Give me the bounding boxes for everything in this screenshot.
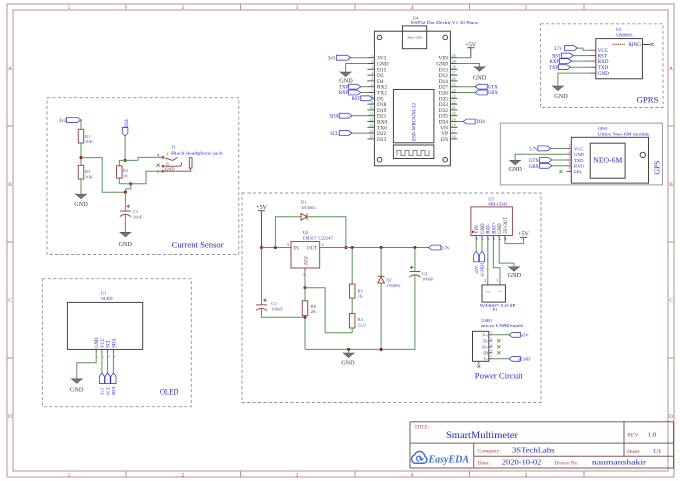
- svg-text:R8: R8: [311, 304, 317, 309]
- wire: [305, 288, 352, 333]
- net flag 3v3: [99, 373, 104, 384]
- svg-text:ADJ: ADJ: [304, 256, 309, 265]
- svg-text:4: 4: [411, 472, 414, 478]
- svg-text:V-: V-: [484, 357, 489, 362]
- section box GPS: [500, 123, 662, 185]
- svg-text:5: 5: [525, 472, 528, 478]
- svg-text:5: 5: [525, 5, 528, 11]
- section box GPRS: [541, 24, 664, 108]
- svg-text:GND: GND: [508, 272, 522, 279]
- net flag a5V: [509, 332, 521, 337]
- net flag GTX: [475, 84, 487, 89]
- svg-text:22.6: 22.6: [358, 323, 367, 328]
- wire: [261, 248, 263, 305]
- net flag SCL: [105, 373, 110, 384]
- svg-text:OUT: OUT: [307, 246, 317, 251]
- wire: [505, 237, 524, 243]
- svg-text:C3: C3: [271, 301, 277, 306]
- wire: [304, 271, 306, 288]
- svg-text:J1: J1: [172, 145, 176, 150]
- svg-text:4: 4: [490, 349, 492, 353]
- IC U4 ESP32 Dev Devkit V1 30 Pinos: [374, 31, 450, 166]
- node junction D1 left: [274, 246, 277, 249]
- resistor R2: [117, 166, 123, 178]
- svg-text:U2: U2: [303, 230, 309, 235]
- wire: [457, 121, 463, 123]
- svg-text:16: 16: [452, 135, 456, 139]
- svg-text:3STechLabs: 3STechLabs: [512, 447, 555, 454]
- EasyEDA logo: [412, 451, 427, 463]
- svg-text:1: 1: [68, 5, 71, 11]
- svg-text:GPRS: GPRS: [637, 95, 659, 104]
- svg-text:Sheet:: Sheet:: [627, 449, 641, 455]
- svg-text:SIM800L: SIM800L: [616, 32, 633, 37]
- svg-text:27: 27: [452, 71, 456, 75]
- wire: [124, 192, 126, 211]
- module U5 MH-CD42: [471, 207, 513, 236]
- svg-text:5: 5: [371, 77, 373, 81]
- svg-text:30: 30: [452, 54, 456, 58]
- svg-text:TXP: TXP: [339, 85, 348, 90]
- svg-text:1.0: 1.0: [648, 432, 657, 439]
- node junction ADJ: [303, 286, 306, 289]
- wire: [457, 64, 479, 68]
- node junction R5 tap: [351, 246, 354, 249]
- svg-text:1/1: 1/1: [653, 448, 661, 455]
- svg-text:OLED: OLED: [101, 296, 113, 301]
- svg-text:R1: R1: [85, 134, 91, 139]
- wire: [80, 143, 82, 165]
- svg-text:20: 20: [452, 112, 456, 116]
- svg-text:C1: C1: [133, 209, 139, 214]
- resistor R8: [302, 301, 308, 316]
- svg-text:RXD: RXD: [574, 164, 584, 169]
- svg-text:R3: R3: [85, 169, 91, 174]
- no-connect PPS: [559, 170, 562, 173]
- svg-text:A: A: [669, 66, 673, 72]
- svg-text:GPS: GPS: [653, 161, 662, 175]
- net flag aGND: [509, 356, 521, 361]
- svg-text:R2: R2: [123, 168, 129, 173]
- svg-text:3: 3: [492, 238, 496, 240]
- wire: [499, 241, 514, 267]
- svg-text:PPS: PPS: [574, 170, 582, 175]
- svg-text:12: 12: [369, 118, 373, 122]
- svg-text:GND: GND: [554, 93, 568, 100]
- svg-text:SCL: SCL: [107, 339, 112, 348]
- svg-text:1: 1: [499, 291, 503, 293]
- svg-text:micro USBFemale: micro USBFemale: [481, 323, 523, 328]
- wire: [481, 241, 483, 252]
- svg-text:D1: D1: [301, 199, 307, 204]
- svg-text:aGND1: aGND1: [480, 262, 485, 277]
- svg-text:RXP: RXP: [339, 91, 349, 96]
- ground: [344, 353, 354, 357]
- net flag 3.7v: [428, 245, 440, 250]
- svg-text:5: 5: [475, 238, 479, 240]
- svg-text:IN: IN: [294, 246, 300, 251]
- svg-text:3.7v: 3.7v: [554, 47, 563, 52]
- wire: [262, 308, 306, 317]
- svg-text:RST: RST: [351, 97, 360, 102]
- wire: [305, 275, 415, 349]
- svg-text:Power Circuit: Power Circuit: [475, 372, 524, 381]
- svg-text:ESP-WROOM-32: ESP-WROOM-32: [412, 103, 418, 141]
- wire: [107, 354, 109, 373]
- wire: [352, 132, 367, 134]
- svg-text:+5V: +5V: [256, 204, 268, 211]
- wire: [80, 120, 82, 129]
- svg-text:1: 1: [68, 472, 71, 478]
- wire: [487, 241, 489, 282]
- wire: [320, 247, 429, 249]
- svg-text:1N4002: 1N4002: [301, 205, 316, 210]
- svg-text:1: 1: [496, 279, 498, 283]
- svg-text:2: 2: [490, 337, 492, 341]
- no-connect ID: [497, 351, 500, 354]
- wire: [346, 64, 368, 73]
- svg-text:GND: GND: [473, 75, 487, 82]
- wire: [352, 115, 367, 117]
- wire: [493, 334, 509, 336]
- svg-text:1: 1: [371, 54, 373, 58]
- no-connect RING: [651, 43, 654, 46]
- wire: [77, 354, 96, 379]
- wire: [552, 159, 567, 161]
- svg-text:1': 1': [166, 151, 169, 156]
- wire: [558, 73, 590, 86]
- wire: [574, 55, 590, 57]
- svg-text:1N4002: 1N4002: [386, 283, 401, 288]
- svg-text:10K: 10K: [85, 139, 94, 144]
- wire: [125, 157, 162, 160]
- wire: [571, 66, 590, 68]
- svg-text:1: 1: [95, 356, 99, 358]
- svg-text:3.7v: 3.7v: [441, 247, 450, 252]
- wire: [351, 328, 353, 333]
- svg-text:GTX: GTX: [529, 159, 539, 164]
- svg-text:BAT+: BAT+: [492, 222, 497, 234]
- svg-text:17: 17: [452, 129, 456, 133]
- resistor R4: [349, 314, 355, 329]
- svg-text:GND: GND: [74, 201, 88, 208]
- svg-text:B: B: [669, 182, 673, 188]
- svg-text:4: 4: [371, 71, 373, 75]
- svg-text:10uF: 10uF: [133, 214, 143, 219]
- regulator U2 LM317: [291, 242, 320, 268]
- section box Current Sensor: [47, 98, 239, 255]
- svg-text:R5: R5: [358, 288, 364, 293]
- svg-text:3: 3: [296, 5, 299, 11]
- svg-text:D34: D34: [477, 120, 486, 125]
- svg-text:SDA: SDA: [111, 386, 116, 396]
- svg-text:26: 26: [452, 77, 456, 81]
- svg-text:GRX: GRX: [488, 91, 499, 96]
- svg-text:2: 2: [484, 279, 486, 283]
- node junction D2 tap: [380, 246, 383, 249]
- node junction C2 tap: [413, 246, 416, 249]
- svg-text:2: 2: [182, 472, 185, 478]
- svg-text:2: 2: [182, 5, 185, 11]
- svg-text:3v3: 3v3: [100, 387, 105, 395]
- node junction R2 bottom: [129, 182, 132, 185]
- svg-text:A: A: [8, 66, 12, 72]
- svg-text:1K: 1K: [358, 294, 364, 299]
- wire: [131, 171, 162, 184]
- svg-text:VCC: VCC: [574, 146, 583, 151]
- wire: [275, 217, 301, 248]
- svg-text:V+: V+: [482, 333, 488, 338]
- connector USB1 micro USB female: [473, 331, 489, 361]
- wire: [552, 165, 567, 167]
- svg-text:23: 23: [452, 95, 456, 99]
- svg-text:5: 5: [569, 167, 571, 171]
- svg-text:1: 1: [569, 144, 571, 148]
- svg-text:GND: GND: [95, 337, 100, 348]
- resistor R1: [78, 129, 84, 143]
- capacitor C1: [120, 210, 131, 212]
- ground: [121, 233, 131, 237]
- svg-text:EasyEDA: EasyEDA: [428, 455, 470, 466]
- svg-text:19: 19: [452, 118, 456, 122]
- wire: [457, 92, 475, 94]
- svg-text:1: 1: [498, 238, 502, 240]
- svg-text:a5V: a5V: [474, 265, 479, 273]
- svg-text:P1: P1: [493, 307, 498, 312]
- wire: [80, 179, 82, 194]
- wire: [81, 158, 125, 193]
- no-connect D-: [497, 339, 500, 342]
- svg-text:3v3: 3v3: [59, 119, 67, 124]
- svg-text:VIN: VIN: [475, 225, 480, 234]
- svg-text:3.7v: 3.7v: [529, 147, 538, 152]
- capacitor C2: [409, 271, 420, 273]
- wire: [493, 358, 509, 360]
- wire: [125, 184, 130, 192]
- svg-text:2: 2: [101, 356, 105, 358]
- node junction R2 top: [124, 159, 127, 162]
- node junction R8 bottom: [303, 316, 306, 319]
- svg-text:OLED: OLED: [160, 388, 179, 397]
- svg-text:TXP: TXP: [549, 66, 558, 71]
- net flag a5V: [474, 251, 479, 261]
- svg-text:naumanshakir: naumanshakir: [592, 459, 647, 466]
- svg-text:VCC: VCC: [101, 338, 106, 348]
- svg-text:R4: R4: [358, 317, 364, 322]
- wire: [112, 354, 114, 373]
- svg-text:Date:: Date:: [478, 460, 491, 466]
- wire: [351, 57, 368, 59]
- svg-text:6: 6: [371, 83, 373, 87]
- no-connect D+: [497, 345, 500, 348]
- svg-text:25: 25: [452, 83, 456, 87]
- svg-text:REV:: REV:: [627, 433, 640, 439]
- svg-text:RING: RING: [628, 42, 641, 48]
- svg-text:ID: ID: [483, 351, 488, 356]
- svg-text:GTX: GTX: [488, 85, 498, 90]
- svg-text:MH-CD42: MH-CD42: [488, 202, 507, 207]
- resistor R3: [78, 165, 84, 179]
- wire: [577, 48, 589, 50]
- wire: [380, 248, 382, 277]
- svg-text:3: 3: [371, 66, 373, 70]
- svg-text:SCL: SCL: [105, 386, 110, 395]
- svg-text:RXP: RXP: [550, 60, 560, 65]
- net flag D34: [463, 119, 475, 124]
- svg-text:2020-10-02: 2020-10-02: [502, 459, 542, 466]
- svg-text:C2: C2: [422, 271, 428, 276]
- wire: [414, 248, 416, 272]
- svg-text:3: 3: [569, 156, 571, 160]
- svg-text:EN: EN: [441, 137, 448, 143]
- svg-text:D: D: [669, 414, 673, 420]
- node junction D1 right: [344, 246, 347, 249]
- wire: [551, 147, 567, 149]
- svg-text:D34: D34: [125, 119, 130, 128]
- node junction D2 bottom: [380, 348, 383, 351]
- wire: [380, 283, 382, 349]
- wire: [361, 86, 368, 88]
- no-connect shield: [477, 365, 480, 368]
- svg-text:29: 29: [452, 60, 456, 64]
- svg-text:1: 1: [490, 331, 492, 335]
- svg-text:GND: GND: [498, 223, 503, 234]
- svg-text:SDA: SDA: [329, 114, 339, 119]
- svg-text:2: 2: [371, 60, 373, 64]
- svg-text:GND: GND: [70, 386, 84, 393]
- wire: [475, 241, 477, 252]
- svg-text:5V-OUT: 5V-OUT: [504, 217, 509, 234]
- svg-text:18: 18: [452, 124, 456, 128]
- svg-text:28: 28: [452, 66, 456, 70]
- svg-text:GND: GND: [339, 77, 353, 84]
- wire: [101, 354, 103, 373]
- svg-text:10K: 10K: [85, 175, 94, 180]
- svg-text:SmartMultimeter: SmartMultimeter: [446, 430, 519, 441]
- connector P1 WJ3007-5.0-2P: [482, 285, 505, 302]
- svg-text:SCL: SCL: [330, 132, 339, 137]
- net flag GRX: [475, 90, 487, 95]
- node junction R1-R3: [79, 156, 82, 159]
- svg-text:11: 11: [369, 112, 373, 116]
- wire: [457, 57, 470, 59]
- svg-text:18: 18: [123, 173, 128, 178]
- svg-text:Current Sensor: Current Sensor: [172, 241, 224, 250]
- svg-text:3: 3: [106, 356, 110, 358]
- svg-text:24: 24: [452, 89, 456, 93]
- svg-text:4: 4: [569, 162, 571, 166]
- svg-text:2: 2: [486, 291, 490, 293]
- svg-text:9: 9: [371, 100, 373, 104]
- svg-text:15: 15: [369, 135, 373, 139]
- wire: [351, 248, 353, 285]
- diode D1: [301, 213, 307, 220]
- svg-text:4: 4: [411, 5, 414, 11]
- svg-text:6: 6: [487, 238, 491, 240]
- wire: [515, 154, 566, 160]
- svg-text:D2: D2: [386, 278, 392, 283]
- ground: [341, 72, 351, 76]
- svg-text:2: 2: [569, 150, 571, 154]
- wire: [124, 136, 126, 160]
- section box OLED: [43, 279, 192, 407]
- svg-text:NEO-6M: NEO-6M: [593, 157, 622, 164]
- title block: [410, 422, 674, 468]
- svg-text:13: 13: [369, 124, 373, 128]
- ground: [509, 267, 519, 271]
- svg-text:100nF: 100nF: [422, 277, 434, 282]
- ground: [475, 67, 485, 71]
- svg-text:B: B: [8, 182, 12, 188]
- svg-text:5: 5: [490, 355, 492, 359]
- wire: [119, 178, 131, 184]
- node junction GND tap: [347, 348, 350, 351]
- svg-text:2K: 2K: [311, 309, 317, 314]
- svg-text:4: 4: [504, 238, 508, 240]
- capacitor C3: [256, 304, 267, 306]
- svg-text:D-: D-: [483, 339, 488, 344]
- wire: [262, 247, 292, 249]
- svg-text:GND: GND: [481, 223, 486, 234]
- svg-text:GND: GND: [118, 241, 132, 248]
- node junction C3 tap: [260, 246, 263, 249]
- svg-text:4: 4: [112, 356, 116, 358]
- wire: [307, 217, 346, 248]
- svg-text:C: C: [669, 298, 673, 304]
- svg-text:a5V: a5V: [521, 333, 529, 338]
- svg-text:100nF: 100nF: [271, 307, 283, 312]
- svg-text:D23: D23: [377, 137, 387, 143]
- net flag aGND1: [479, 251, 484, 261]
- ground: [510, 161, 520, 165]
- svg-text:14: 14: [369, 129, 373, 133]
- svg-text:BAT-: BAT-: [487, 223, 492, 234]
- wire: [361, 92, 368, 94]
- wire: [351, 298, 353, 313]
- net flag SDA: [111, 373, 116, 384]
- wire: [304, 288, 306, 301]
- ground: [553, 86, 563, 90]
- node junction C1 top: [124, 191, 127, 194]
- svg-text:aGND: aGND: [519, 357, 532, 362]
- wire: [493, 241, 500, 282]
- svg-text:D: D: [8, 414, 12, 420]
- display U1 OLED: [67, 302, 142, 349]
- svg-text:2: 2: [481, 238, 485, 240]
- svg-text:21: 21: [452, 106, 456, 110]
- svg-text:+5V: +5V: [518, 231, 530, 238]
- wire: [572, 60, 590, 62]
- svg-text:GRX: GRX: [529, 165, 540, 170]
- svg-text:ESP32 Dot Devkit V1 30 Pinos: ESP32 Dot Devkit V1 30 Pinos: [411, 20, 478, 25]
- svg-text:SDA: SDA: [112, 338, 117, 348]
- svg-text:Company:: Company:: [478, 449, 502, 455]
- module GPS1 NEO-6M: [571, 137, 648, 183]
- svg-text:3v3: 3v3: [328, 57, 336, 62]
- wire: [457, 86, 475, 88]
- resistor R5: [349, 284, 355, 298]
- wire: [348, 349, 350, 353]
- svg-text:Ublox Neo-6M module: Ublox Neo-6M module: [598, 131, 650, 136]
- wire: [304, 316, 306, 350]
- svg-text:Black headphone jack: Black headphone jack: [171, 151, 224, 156]
- svg-text:10: 10: [369, 106, 373, 110]
- svg-text:3: 3: [490, 343, 492, 347]
- section box Power Circuit: [242, 193, 541, 403]
- svg-text:GND: GND: [341, 360, 355, 367]
- svg-text:TXD: TXD: [574, 158, 584, 163]
- svg-text:2: 2: [322, 242, 324, 247]
